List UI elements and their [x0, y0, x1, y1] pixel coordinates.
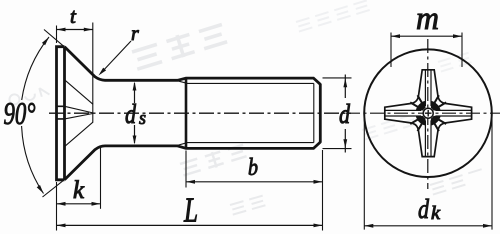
recess slot rectangle on head face: [57, 106, 65, 119]
cross slot bottom lines: [425, 70, 431, 156]
svg-text:k: k: [73, 177, 85, 204]
dimension t: [56, 26, 58, 44]
dimension dk: [364, 115, 492, 230]
dimension b: [186, 150, 323, 231]
dimension ds: [134, 83, 136, 143]
slot channels (white): [385, 70, 471, 156]
90 degree arc (with gap for label): [22, 37, 49, 100]
centerline axis of screw (left view): [49, 112, 351, 114]
wing wedge lines (diagonal notches): [410, 95, 446, 131]
dimension d (thread dia at tip): [323, 78, 352, 149]
head circle dk: [364, 49, 492, 177]
cross recess outline: [385, 70, 472, 157]
dimension L: [56, 182, 58, 231]
vertical centerline: [427, 39, 429, 189]
recess inner diagonals to apex: [65, 106, 93, 119]
svg-text:d: d: [418, 194, 429, 224]
90 degree cone angle: extension lines: [43, 30, 65, 198]
svg-text:d: d: [339, 99, 350, 129]
thread root lines (thin) with runout taper: [176, 80, 314, 146]
svg-text:r: r: [131, 23, 139, 45]
recess apex vertical + t extension line: [92, 23, 94, 123]
central ring: [423, 108, 433, 118]
svg-text:t: t: [70, 4, 77, 28]
dimension m: [391, 33, 462, 68]
recess rosette dark ring: [419, 104, 438, 123]
dimension k: [100, 148, 102, 209]
tip end face: [319, 84, 322, 143]
horizontal centerline: [346, 112, 500, 114]
svg-text:L: L: [183, 191, 198, 230]
cone top edge + shank top line: [65, 47, 321, 85]
svg-text:90°: 90°: [4, 95, 36, 131]
svg-text:b: b: [248, 155, 258, 181]
leader r (fillet radius): [101, 41, 132, 74]
head outline (countersunk head, side view): [57, 45, 65, 181]
svg-text:k: k: [431, 203, 441, 224]
recess outer diagonals: [65, 80, 93, 146]
cone bottom edge + shank bottom line: [65, 142, 321, 180]
svg-text:d: d: [125, 99, 136, 129]
svg-text:m: m: [416, 1, 439, 37]
svg-text:s: s: [139, 108, 146, 129]
thread start vertical: [185, 78, 188, 149]
